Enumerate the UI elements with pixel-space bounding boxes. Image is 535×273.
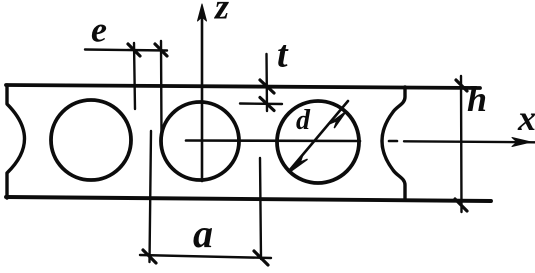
t dimension tick at strip edge [260,80,274,93]
svg-text:d: d [296,105,311,136]
a dimension extension line left [150,131,152,262]
e dimension line [85,50,167,51]
svg-text:a: a [193,211,213,256]
x axis centerline through holes [186,139,360,142]
strip left end notch [7,85,25,198]
a dimension line [140,255,271,258]
x axis arrowhead [512,138,531,147]
e dimension tick at line 2 [155,44,167,56]
h dimension tick at bottom edge [455,199,467,211]
h dimension line vertical [460,76,463,212]
hole 1 [51,100,131,180]
a dimension tick right [254,251,268,265]
x axis dash [389,140,397,143]
z axis [201,14,204,181]
strip top edge [6,85,480,88]
x axis line [404,141,535,142]
d dimension arrowhead lower-left [291,156,307,172]
svg-text:e: e [91,10,107,50]
hole 2 [161,102,239,180]
a dimension tick left [143,250,156,263]
svg-text:h: h [467,79,487,119]
hole 3 [277,101,359,183]
t dimension line vertical [265,54,268,111]
e dimension extension line 1 [134,43,135,109]
h dimension tick at top edge [456,80,467,91]
t dimension hole-top reference line [240,102,282,105]
d dimension arrowhead upper-right [330,112,346,128]
strip bottom edge [6,197,491,201]
svg-text:z: z [213,0,229,27]
e dimension extension line 2 [160,41,163,137]
strip right end notch [382,87,405,200]
d dimension diagonal line [289,101,348,171]
svg-text:x: x [517,98,535,138]
a dimension extension line right [260,158,261,259]
svg-text:t: t [277,34,289,76]
e dimension tick at line 1 [128,44,140,56]
z axis arrowhead [198,4,207,21]
t dimension tick at hole top [260,98,274,111]
